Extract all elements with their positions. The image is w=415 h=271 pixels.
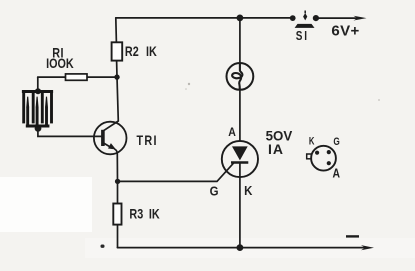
svg-text:IK: IK bbox=[146, 44, 157, 59]
svg-text:K: K bbox=[244, 183, 252, 198]
svg-text:R2: R2 bbox=[125, 44, 139, 59]
svg-text:TRI: TRI bbox=[137, 133, 158, 148]
svg-text:A: A bbox=[228, 126, 236, 139]
svg-text:A: A bbox=[333, 167, 341, 181]
svg-text:G: G bbox=[333, 136, 339, 148]
svg-text:IK: IK bbox=[149, 206, 160, 221]
svg-text:6V+: 6V+ bbox=[331, 22, 359, 39]
svg-text:IA: IA bbox=[268, 141, 284, 157]
svg-text:R3: R3 bbox=[129, 206, 143, 221]
svg-text:K: K bbox=[309, 135, 315, 148]
svg-text:G: G bbox=[210, 184, 219, 199]
svg-text:IOOK: IOOK bbox=[46, 56, 74, 71]
svg-text:SI: SI bbox=[296, 30, 309, 43]
